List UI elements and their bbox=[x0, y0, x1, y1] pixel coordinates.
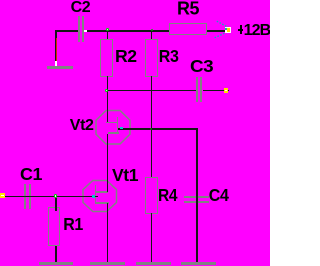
terminal input (left edge) bbox=[0, 193, 5, 198]
node dot on rail at R2 bbox=[106, 28, 109, 31]
wire R5 to +12V terminal bbox=[207, 30, 226, 32]
wire mid node to C3 bbox=[107, 90, 196, 92]
wire ground drop white tip bbox=[55, 61, 57, 65]
transistor U=Vt1 internals: base bar bbox=[95, 185, 97, 204]
ground bar under C4 bbox=[181, 262, 216, 266]
Vt1 top arm bbox=[96, 191, 108, 193]
wire vertical through C4 to ground bbox=[196, 128, 198, 262]
dashed selection line upper at +12V terminal bbox=[217, 21, 230, 28]
wire C3 to output terminal bbox=[203, 90, 229, 92]
label R4 bbox=[158, 190, 177, 203]
wire R2 lead top bbox=[107, 31, 109, 39]
cyan pin mark Vt2 base bbox=[120, 127, 123, 129]
node dot mid at R2 bottom bbox=[105, 89, 108, 92]
label R3 bbox=[159, 51, 179, 64]
Vt2 bottom arm bbox=[108, 132, 119, 134]
capacitor C2 bbox=[78, 16, 80, 42]
wire Vt1 emitter to ground bbox=[107, 203, 109, 262]
wire ground drop (black) bbox=[55, 30, 56, 62]
resistor R5 bbox=[169, 23, 207, 36]
Vt1 bottom arm bbox=[96, 202, 109, 204]
label C4 bbox=[209, 190, 229, 203]
wire input to Vt1 base bbox=[5, 196, 99, 198]
label C3 bbox=[190, 61, 213, 74]
terminal +12V bbox=[225, 27, 231, 33]
node dot at C1/R1/base junction bbox=[54, 194, 57, 197]
dashed selection line lower at +12V terminal bbox=[215, 31, 229, 37]
ground (top-left) bbox=[47, 66, 73, 69]
ground bar under Vt1 emitter bbox=[90, 262, 125, 266]
transistor Vt2 body circle bbox=[96, 111, 130, 145]
capacitor C1 bbox=[24, 184, 26, 209]
label +12V text bbox=[244, 25, 271, 37]
Vt2 top arm bbox=[106, 122, 117, 124]
capacitor C4 bbox=[184, 196, 209, 198]
label +12V plus sign bbox=[240, 25, 242, 34]
wire white segment after C2 bbox=[84, 30, 87, 32]
wire Vt2 emitter to Vt1 collector bbox=[107, 134, 109, 191]
transistor Vt2 internals: base bar bbox=[117, 117, 119, 134]
node dot at R3/base wire crossing bbox=[150, 128, 152, 130]
wire R3 lead top bbox=[151, 31, 153, 39]
wire R2 bottom to Vt2 collector bbox=[107, 76, 109, 122]
top rail wire left (C2 left segment) bbox=[55, 30, 78, 32]
wire ground drop red part bbox=[56, 38, 57, 62]
resistor R2 bbox=[100, 39, 113, 77]
ground bar under R1 bbox=[39, 262, 73, 266]
capacitor C3 bbox=[196, 77, 198, 102]
top rail wire to R5 bbox=[87, 30, 169, 32]
wire R1 lead bottom bbox=[55, 246, 57, 262]
label R1 bbox=[63, 219, 83, 232]
resistor R1 bbox=[48, 207, 60, 246]
label R2 bbox=[115, 51, 137, 64]
label C2 bbox=[71, 2, 91, 14]
label R5 bbox=[177, 3, 199, 17]
transistor Vt1 body circle bbox=[83, 181, 117, 212]
node dot on rail at R3 bbox=[151, 29, 153, 31]
ground bar under R4 bbox=[136, 262, 171, 266]
label Vt2 bbox=[70, 120, 94, 132]
terminal output (after C3) bbox=[224, 88, 229, 92]
resistor R4 bbox=[145, 177, 158, 214]
cyan pin mark Vt1 base bbox=[92, 195, 95, 198]
wire R1 lead top bbox=[55, 198, 57, 211]
label C1 bbox=[20, 169, 42, 182]
wire R4 lead bottom to ground bbox=[151, 213, 153, 261]
resistor R3 bbox=[145, 39, 158, 77]
wire Vt2 base horizontal bbox=[118, 128, 198, 130]
label Vt1 bbox=[112, 170, 138, 183]
wire R3 bottom to R4 top bbox=[151, 76, 153, 177]
